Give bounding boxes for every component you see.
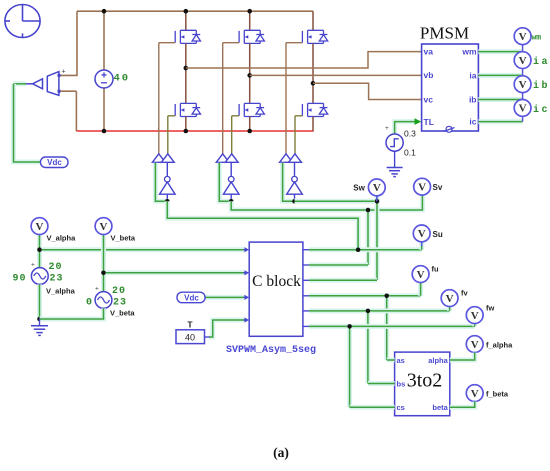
wire Sv row (leg2 gate signal)	[231, 201, 368, 210]
wire Sv vertical to C block row2	[366, 210, 371, 265]
svg-text:20: 20	[49, 262, 63, 273]
MOSFET Q3 (top)	[302, 30, 327, 43]
svg-text:ia: ia	[533, 56, 550, 68]
svg-text:V: V	[418, 228, 426, 240]
node gate signal leg 2	[229, 199, 234, 204]
voltmeter Su	[413, 225, 430, 242]
inverter (NOT) leg 2	[230, 162, 232, 176]
svg-text:+: +	[31, 262, 35, 269]
svg-text:V: V	[471, 388, 479, 400]
wire Vdc label to C block in3	[206, 295, 246, 300]
svg-text:V: V	[373, 182, 381, 194]
wire T const to C block in4	[209, 320, 245, 337]
svg-text:SVPWM_Asym_5seg: SVPWM_Asym_5seg	[226, 345, 316, 356]
svg-text:Su: Su	[433, 230, 443, 239]
svg-text:V_beta: V_beta	[110, 309, 135, 318]
wire row4 fu	[309, 293, 421, 298]
node gnd rail	[37, 317, 42, 322]
gate wire Q5 vertical	[231, 116, 233, 154]
svg-text:V: V	[418, 182, 426, 194]
svg-text:V: V	[446, 293, 454, 305]
svg-text:23: 23	[50, 274, 64, 285]
wire V_beta probe to source	[101, 235, 106, 292]
wire to Vdc label	[14, 84, 41, 162]
svg-text:V: V	[417, 269, 425, 281]
svg-text:Sv: Sv	[433, 183, 443, 192]
svg-text:as: as	[397, 356, 405, 365]
voltmeter fw	[466, 307, 483, 324]
wire beta to f_beta probe	[450, 402, 475, 408]
wire leg 1 midpoint	[185, 43, 187, 103]
wire row5 down to 3to2 bs	[365, 311, 370, 384]
node phase c	[311, 81, 316, 86]
node Sv junction	[366, 208, 371, 213]
wire row5 fv	[309, 308, 450, 313]
svg-text:wm: wm	[532, 34, 542, 43]
svg-text:V_alpha: V_alpha	[46, 287, 76, 296]
wire row6 fw	[309, 324, 475, 329]
node bottom bus / source	[102, 129, 107, 134]
inverter leg 1 drain wire	[185, 11, 187, 30]
node row4	[384, 294, 389, 299]
wire phase b to PMSM vb	[250, 74, 422, 76]
node phase a	[184, 66, 189, 71]
svg-text:90: 90	[13, 274, 27, 285]
wire gate Q3 lead	[286, 42, 302, 44]
gate wire Q6 vertical	[294, 116, 296, 154]
svg-text:Vdc: Vdc	[184, 294, 199, 303]
wire V_alpha probe to source	[37, 235, 42, 268]
wire Su row (leg1 gate signal)	[167, 201, 358, 249]
C block SVPWM_Asym_5seg	[249, 242, 303, 336]
wire gate Q4 lead	[168, 115, 175, 117]
svg-text:0.3: 0.3	[404, 129, 416, 139]
step source (load torque)	[386, 134, 403, 151]
svg-text:3to2: 3to2	[407, 370, 443, 392]
wire phase a to PMSM va	[186, 52, 422, 68]
svg-text:fw: fw	[486, 304, 494, 313]
svg-text:V_beta: V_beta	[111, 234, 136, 243]
node Sw junction	[375, 199, 380, 204]
PMSM neutral pin symbol	[446, 126, 452, 132]
clock element (simulation control)	[5, 5, 40, 38]
wire gate Q2 lead	[223, 42, 239, 44]
pin C block output	[303, 310, 309, 312]
voltmeter wm	[514, 28, 531, 45]
gate wire Q4 vertical	[167, 116, 169, 154]
pin T output	[205, 336, 210, 338]
svg-text:V: V	[519, 103, 527, 115]
svg-text:Vdc: Vdc	[47, 158, 62, 167]
svg-text:beta: beta	[432, 403, 448, 412]
svg-text:PMSM: PMSM	[420, 24, 469, 43]
svg-text:0.1: 0.1	[404, 148, 416, 158]
MOSFET Q2 (top)	[239, 30, 264, 43]
svg-text:(a): (a)	[273, 445, 289, 460]
wire alpha to f_alpha probe	[450, 353, 475, 360]
svg-text:40: 40	[114, 73, 131, 85]
MOSFET Q4 (bottom)	[175, 103, 200, 116]
svg-text:ib: ib	[533, 80, 550, 92]
label Vdc (sensor output)	[41, 157, 69, 168]
svg-text:vc: vc	[424, 94, 434, 104]
gate driver pair leg 3	[280, 154, 293, 163]
svg-text:va: va	[424, 47, 434, 57]
svg-text:cs: cs	[397, 403, 405, 412]
wire row4 down to 3to2 as	[384, 296, 389, 360]
inverter leg 2 drain wire	[249, 11, 251, 30]
node row6	[347, 324, 352, 329]
node phase b	[247, 73, 252, 78]
wire gate Q1 lead	[159, 42, 175, 44]
svg-text:V: V	[100, 221, 108, 233]
wire row3 Sw	[309, 278, 377, 283]
gate wire Q2 vertical	[222, 43, 224, 154]
wire Sw vertical to C block row3	[375, 196, 380, 281]
sine source V_alpha	[31, 268, 48, 285]
ground (step source)	[394, 151, 396, 167]
svg-text:V_alpha: V_alpha	[47, 234, 77, 243]
voltmeter f_beta	[466, 385, 483, 402]
voltmeter f_alpha	[466, 336, 483, 353]
MOSFET Q5 (bottom)	[239, 103, 264, 116]
node V_alpha out	[37, 247, 42, 252]
wire driver loop leg 3	[283, 163, 295, 202]
wire gate Q5 lead	[232, 115, 239, 117]
wire driver loop leg 2	[219, 163, 231, 202]
pin C block output	[303, 249, 309, 251]
voltage sensor Vdc	[25, 72, 61, 96]
inverter leg 3 drain wire	[312, 11, 314, 30]
3to2 transformation block	[395, 352, 450, 416]
svg-text:+: +	[385, 125, 389, 132]
wire ia	[478, 73, 522, 78]
voltmeter ib	[514, 76, 531, 93]
pin C block output	[303, 325, 309, 327]
inverter (NOT) leg 3	[294, 162, 296, 176]
wire leg 1 source to bus	[185, 117, 187, 132]
wire top DC bus	[77, 10, 313, 12]
svg-text:T: T	[187, 320, 193, 330]
voltmeter fu	[412, 266, 429, 283]
wire step source to TL	[395, 122, 417, 134]
svg-text:ia: ia	[469, 70, 476, 80]
MOSFET Q1 (top)	[175, 30, 200, 43]
node row5	[366, 309, 371, 314]
voltmeter Sv	[414, 178, 431, 195]
svg-text:wm: wm	[461, 47, 477, 57]
pin C block output	[303, 264, 309, 266]
svg-text:V: V	[519, 79, 527, 91]
wire V_beta to C block in2	[104, 270, 246, 275]
svg-text:+: +	[95, 286, 99, 293]
voltmeter V_alpha (probe)	[31, 218, 48, 235]
voltmeter fv	[441, 290, 458, 307]
voltmeter ic	[514, 100, 531, 117]
svg-text:V: V	[471, 339, 479, 351]
wire driver loop leg 1	[155, 163, 167, 202]
svg-text:vb: vb	[424, 70, 434, 80]
wire as input	[387, 358, 395, 363]
gate driver pair leg 1	[152, 154, 165, 163]
pin C block output	[303, 279, 309, 281]
gate wire Q1 vertical	[158, 43, 160, 154]
wire sensor - down to bottom bus	[60, 90, 76, 92]
svg-text:bs: bs	[397, 379, 406, 388]
svg-text:23: 23	[113, 298, 127, 309]
node row1/Su	[356, 247, 361, 252]
inverter (NOT) leg 1	[166, 162, 168, 176]
wire sensor input	[14, 81, 27, 86]
wire cs input	[350, 405, 395, 410]
gate driver pair leg 2	[216, 154, 229, 163]
wire ic	[478, 119, 522, 124]
wire V_alpha to C block in1	[40, 247, 246, 252]
MOSFET Q6 (bottom)	[302, 103, 327, 116]
svg-text:ic: ic	[469, 117, 476, 127]
constant T = 40	[176, 330, 205, 344]
wire row2 Sv	[309, 263, 368, 268]
wire V_alpha source to gnd	[37, 284, 42, 319]
node V_beta out	[101, 271, 106, 276]
svg-text:40: 40	[185, 333, 195, 343]
wire Sw row (leg3 gate signal)	[295, 199, 378, 204]
pin C block output	[303, 295, 309, 297]
wire leg 2 midpoint	[249, 43, 251, 103]
node top bus / source	[102, 9, 107, 14]
node gate signal leg 1	[165, 199, 170, 204]
DC voltage source 40V	[103, 11, 105, 70]
sine source V_beta	[95, 292, 112, 309]
voltmeter Sw	[368, 179, 385, 196]
voltmeter ia	[514, 52, 531, 69]
svg-text:ib: ib	[469, 94, 477, 104]
wire ib	[478, 97, 522, 102]
svg-text:fu: fu	[432, 265, 439, 274]
svg-text:alpha: alpha	[428, 356, 448, 365]
wire row6 down to 3to2 cs	[347, 326, 352, 407]
svg-text:TL: TL	[424, 117, 434, 127]
wire bs input	[368, 381, 395, 386]
svg-text:f_alpha: f_alpha	[486, 341, 513, 350]
wire phase c to PMSM vc	[313, 83, 422, 99]
svg-text:V: V	[519, 31, 527, 43]
gate wire Q3 vertical	[285, 43, 287, 154]
wire leg 3 source to bus	[312, 117, 314, 132]
node gate signal leg 3	[292, 199, 297, 204]
svg-text:V: V	[519, 55, 527, 67]
svg-text:fv: fv	[461, 289, 468, 298]
wire sensor + to top bus	[76, 11, 78, 75]
svg-text:Sw: Sw	[353, 183, 365, 192]
svg-text:20: 20	[112, 286, 126, 297]
PMSM machine block	[422, 44, 479, 131]
svg-text:+: +	[62, 69, 66, 76]
wire bottom DC bus (red)	[76, 130, 313, 132]
svg-text:ic: ic	[533, 104, 550, 116]
svg-text:f_beta: f_beta	[486, 390, 509, 399]
wire leg 3 midpoint	[312, 43, 314, 103]
wire row1 Su to probe	[309, 247, 422, 252]
wire wm	[478, 49, 522, 54]
wire V_beta source to gnd rail	[40, 308, 104, 319]
wire leg 2 source to bus	[249, 117, 251, 132]
svg-text:V: V	[471, 310, 479, 322]
svg-text:0: 0	[86, 298, 92, 309]
svg-text:C block: C block	[252, 273, 301, 290]
wire Sv row to probe	[368, 195, 422, 210]
ground (sources)	[39, 319, 41, 326]
label Vdc (input to C block)	[177, 292, 205, 303]
voltmeter V_beta (probe)	[95, 218, 112, 235]
svg-text:V: V	[36, 221, 44, 233]
wire gate Q6 lead	[295, 115, 302, 117]
